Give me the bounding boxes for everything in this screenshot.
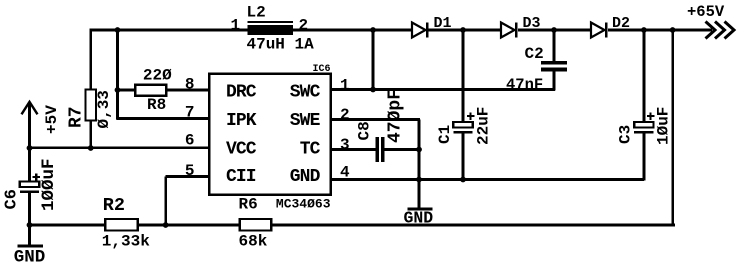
svg-text:22uF: 22uF	[475, 107, 493, 145]
svg-text:22Ø: 22Ø	[143, 67, 172, 85]
svg-text:R7: R7	[67, 106, 87, 128]
svg-text:1: 1	[231, 16, 241, 34]
svg-text:C1: C1	[436, 125, 454, 144]
svg-text:47nF: 47nF	[506, 76, 543, 94]
svg-text:DRC: DRC	[226, 83, 257, 103]
svg-text:GND: GND	[404, 209, 434, 228]
svg-text:5: 5	[185, 162, 195, 180]
svg-text:GND: GND	[14, 248, 46, 268]
svg-text:7: 7	[185, 103, 195, 121]
svg-text:R2: R2	[103, 195, 125, 216]
svg-text:6: 6	[185, 131, 195, 149]
svg-text:47ØpF: 47ØpF	[386, 89, 406, 143]
svg-text:CII: CII	[226, 167, 256, 187]
svg-text:C8: C8	[356, 121, 374, 140]
svg-text:+5V: +5V	[43, 105, 61, 134]
svg-text:TC: TC	[300, 140, 321, 160]
svg-text:Ø,33: Ø,33	[95, 90, 113, 128]
svg-text:1ØØuF: 1ØØuF	[39, 158, 59, 211]
svg-text:SWE: SWE	[290, 111, 321, 131]
svg-text:1,33k: 1,33k	[102, 233, 150, 251]
svg-text:R8: R8	[147, 96, 166, 114]
svg-text:C6: C6	[2, 189, 21, 209]
svg-text:8: 8	[185, 76, 195, 94]
svg-text:VCC: VCC	[226, 140, 257, 160]
svg-text:R6: R6	[239, 196, 258, 214]
svg-text:3: 3	[340, 136, 350, 154]
svg-text:D1: D1	[434, 15, 452, 32]
svg-text:2: 2	[299, 16, 309, 34]
svg-text:MC34Ø63: MC34Ø63	[276, 197, 331, 212]
svg-text:4: 4	[340, 163, 350, 181]
svg-text:68k: 68k	[239, 233, 268, 251]
svg-text:C2: C2	[525, 45, 544, 63]
svg-text:D2: D2	[612, 15, 630, 32]
svg-text:1: 1	[340, 76, 350, 94]
svg-text:D3: D3	[523, 15, 541, 32]
svg-text:SWC: SWC	[290, 83, 321, 103]
svg-text:2: 2	[340, 106, 350, 124]
svg-text:C3: C3	[617, 125, 635, 144]
svg-text:+65V: +65V	[687, 3, 725, 21]
svg-text:1ØuF: 1ØuF	[655, 107, 673, 145]
svg-text:IPK: IPK	[226, 111, 257, 131]
svg-text:IC6: IC6	[312, 64, 330, 75]
svg-text:47uH 1A: 47uH 1A	[247, 36, 315, 54]
svg-text:L2: L2	[247, 4, 266, 22]
svg-text:GND: GND	[290, 167, 321, 187]
